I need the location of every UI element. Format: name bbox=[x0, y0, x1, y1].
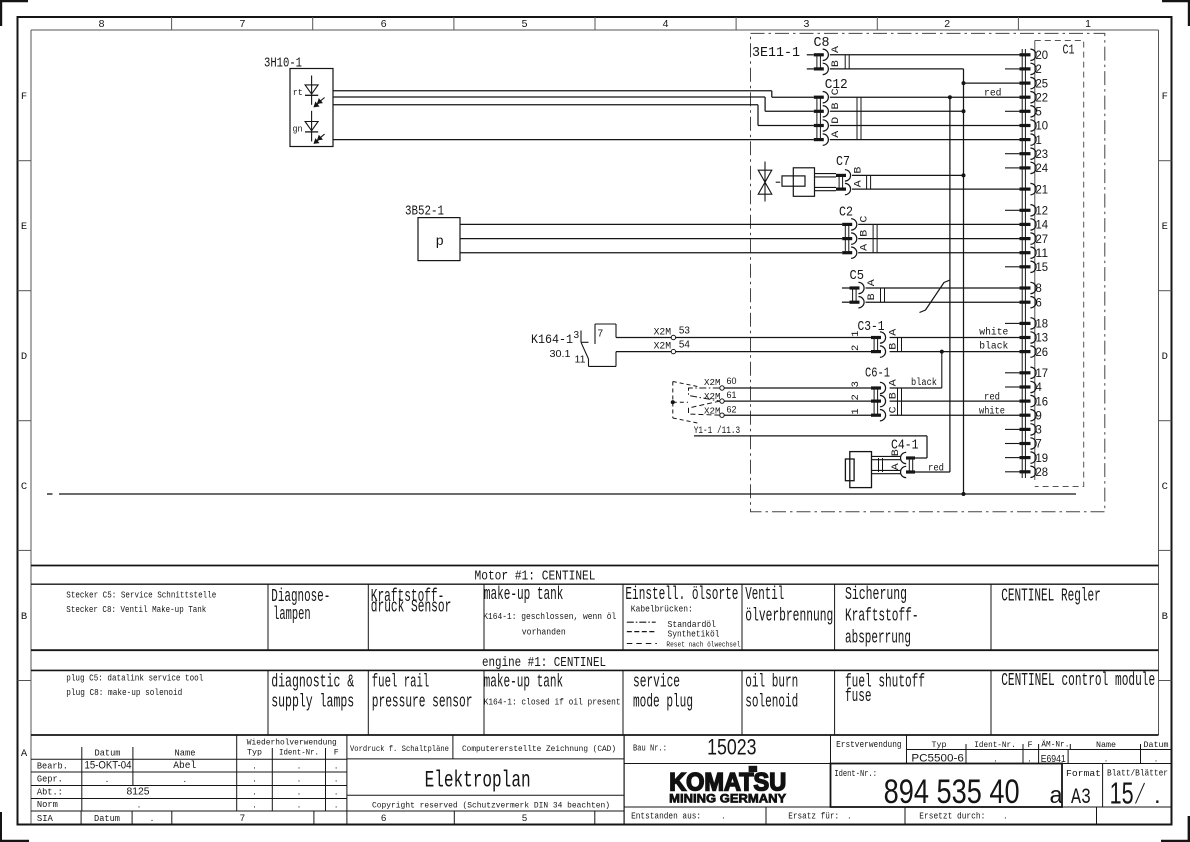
svg-text:Wiederholverwendung: Wiederholverwendung bbox=[247, 737, 337, 747]
svg-text:22: 22 bbox=[1036, 92, 1049, 104]
svg-text:8: 8 bbox=[99, 18, 105, 30]
svg-text:.: . bbox=[722, 810, 725, 821]
svg-text:diagnostic &: diagnostic & bbox=[271, 673, 354, 693]
svg-text:2: 2 bbox=[1036, 64, 1042, 76]
svg-text:black: black bbox=[979, 341, 1008, 353]
svg-text:Vordruck f. Schaltpläne: Vordruck f. Schaltpläne bbox=[350, 744, 449, 754]
svg-text:Elektroplan: Elektroplan bbox=[425, 768, 531, 794]
svg-text:C7: C7 bbox=[836, 155, 850, 170]
svg-text:8125: 8125 bbox=[127, 785, 150, 797]
svg-text:Ersetzt durch:: Ersetzt durch: bbox=[919, 810, 985, 821]
svg-text:.: . bbox=[253, 773, 256, 784]
svg-text:Bearb.: Bearb. bbox=[37, 761, 68, 772]
svg-text:A: A bbox=[888, 379, 899, 386]
svg-text:54: 54 bbox=[679, 340, 690, 351]
svg-text:Ventil: Ventil bbox=[745, 585, 784, 605]
svg-text:B: B bbox=[1162, 611, 1168, 623]
svg-text:7: 7 bbox=[240, 813, 245, 824]
svg-text:12: 12 bbox=[1036, 206, 1049, 218]
svg-text:F: F bbox=[1027, 740, 1032, 750]
svg-text:red: red bbox=[928, 462, 944, 474]
svg-text:plug C5: datalink service tool: plug C5: datalink service tool bbox=[66, 674, 203, 684]
svg-text:16: 16 bbox=[1036, 396, 1049, 408]
svg-text:X2M: X2M bbox=[654, 327, 672, 338]
svg-text:Reset nach ölwechsel: Reset nach ölwechsel bbox=[666, 641, 740, 649]
svg-text:B: B bbox=[21, 611, 27, 623]
svg-text:Diagnose-: Diagnose- bbox=[271, 587, 330, 607]
svg-text:make-up tank: make-up tank bbox=[484, 585, 564, 605]
svg-text:absperrung: absperrung bbox=[845, 629, 911, 649]
svg-text:Kabelbrücken:: Kabelbrücken: bbox=[631, 605, 693, 615]
svg-text:.: . bbox=[335, 773, 338, 784]
svg-text:10: 10 bbox=[1036, 121, 1049, 133]
svg-text:21: 21 bbox=[1036, 184, 1049, 196]
svg-text:60: 60 bbox=[727, 376, 737, 387]
svg-text:A: A bbox=[867, 279, 878, 286]
svg-text:white: white bbox=[979, 327, 1008, 339]
svg-text:4: 4 bbox=[663, 18, 669, 30]
svg-text:D: D bbox=[21, 351, 27, 363]
svg-text:7: 7 bbox=[239, 18, 245, 30]
svg-text:.: . bbox=[335, 800, 338, 811]
svg-text:13: 13 bbox=[1036, 333, 1049, 345]
svg-text:make-up tank: make-up tank bbox=[484, 673, 563, 693]
svg-text:Kraftstoff-: Kraftstoff- bbox=[845, 607, 919, 627]
svg-text:lampen: lampen bbox=[273, 605, 311, 625]
svg-text:3: 3 bbox=[850, 381, 862, 387]
svg-text:.: . bbox=[253, 800, 256, 811]
svg-text:A: A bbox=[860, 244, 871, 251]
svg-text:vorhanden: vorhanden bbox=[522, 628, 566, 638]
svg-text:A: A bbox=[831, 131, 842, 138]
svg-text:Einstell. ölsorte: Einstell. ölsorte bbox=[625, 585, 738, 605]
svg-text:Sicherung: Sicherung bbox=[845, 585, 907, 605]
svg-text:.: . bbox=[298, 786, 301, 797]
svg-text:rt: rt bbox=[293, 87, 303, 98]
svg-text:Datum: Datum bbox=[94, 813, 120, 824]
svg-text:30.1: 30.1 bbox=[550, 349, 571, 360]
svg-text:.: . bbox=[151, 813, 154, 824]
svg-text:A3: A3 bbox=[1071, 785, 1091, 810]
svg-text:Computererstellte Zeichnung (C: Computererstellte Zeichnung (CAD) bbox=[462, 744, 616, 754]
svg-text:Standardöl: Standardöl bbox=[668, 620, 717, 630]
svg-text:7: 7 bbox=[1036, 439, 1042, 451]
svg-text:23: 23 bbox=[1036, 149, 1049, 161]
svg-text:Datum: Datum bbox=[95, 749, 121, 759]
svg-text:X2M: X2M bbox=[704, 377, 721, 388]
svg-text:C8: C8 bbox=[814, 36, 830, 51]
svg-text:Name: Name bbox=[1096, 740, 1116, 750]
svg-text:C5: C5 bbox=[850, 269, 865, 284]
svg-text:Name: Name bbox=[175, 749, 196, 759]
svg-text:B: B bbox=[831, 103, 842, 110]
svg-text:SIA: SIA bbox=[37, 813, 53, 824]
svg-text:gn: gn bbox=[293, 124, 303, 135]
svg-text:engine #1: CENTINEL: engine #1: CENTINEL bbox=[482, 656, 606, 671]
svg-text:.: . bbox=[1105, 754, 1108, 765]
svg-text:Ident-Nr.: Ident-Nr. bbox=[279, 748, 319, 758]
svg-text:F: F bbox=[334, 749, 339, 758]
svg-text:15023: 15023 bbox=[707, 735, 756, 760]
svg-text:K164-1: closed if oil present: K164-1: closed if oil present bbox=[484, 698, 621, 708]
svg-text:ölverbrennung: ölverbrennung bbox=[745, 607, 833, 627]
svg-text:1: 1 bbox=[850, 408, 862, 414]
svg-text:5: 5 bbox=[522, 18, 528, 30]
svg-text:F: F bbox=[1162, 91, 1168, 103]
svg-text:.: . bbox=[335, 761, 338, 772]
svg-text:p: p bbox=[436, 234, 444, 250]
svg-text:Abel: Abel bbox=[173, 760, 196, 772]
svg-text:B: B bbox=[860, 230, 871, 237]
svg-text:Abt.:: Abt.: bbox=[37, 786, 63, 797]
svg-text:Datum: Datum bbox=[1144, 740, 1169, 750]
svg-text:red: red bbox=[984, 87, 1002, 99]
svg-text:white: white bbox=[979, 405, 1005, 417]
svg-text:.: . bbox=[183, 774, 186, 785]
svg-text:KOMATSU: KOMATSU bbox=[669, 768, 786, 796]
svg-text:B: B bbox=[853, 167, 864, 174]
svg-text:.: . bbox=[298, 761, 301, 772]
svg-text:E: E bbox=[21, 221, 27, 233]
svg-text:A: A bbox=[853, 180, 864, 187]
svg-text:pressure sensor: pressure sensor bbox=[372, 693, 473, 713]
svg-text:Motor #1: CENTINEL: Motor #1: CENTINEL bbox=[475, 570, 596, 585]
svg-text:black: black bbox=[911, 377, 937, 389]
svg-text:oil burn: oil burn bbox=[745, 673, 798, 693]
svg-text:2: 2 bbox=[850, 394, 862, 400]
svg-text:Copyright reserved (Schutzverm: Copyright reserved (Schutzvermerk DIN 34… bbox=[372, 801, 610, 811]
svg-text:3: 3 bbox=[1036, 425, 1042, 437]
svg-text:Stecker C5: Service Schnittste: Stecker C5: Service Schnittstelle bbox=[66, 590, 216, 600]
svg-text:Ersatz für:: Ersatz für: bbox=[788, 810, 839, 821]
svg-text:25: 25 bbox=[1036, 78, 1049, 90]
svg-text:Stecker C8: Ventil Make-up Tan: Stecker C8: Ventil Make-up Tank bbox=[66, 605, 206, 615]
svg-text:.: . bbox=[253, 761, 256, 772]
svg-text:C2: C2 bbox=[839, 206, 853, 221]
svg-text:8: 8 bbox=[1036, 283, 1042, 295]
svg-text:B: B bbox=[831, 60, 842, 67]
svg-text:15: 15 bbox=[1036, 262, 1049, 274]
svg-text:D: D bbox=[1162, 351, 1168, 363]
svg-text:A: A bbox=[891, 463, 902, 470]
svg-text:B: B bbox=[891, 449, 902, 456]
svg-text:6: 6 bbox=[381, 18, 387, 30]
svg-text:C6-1: C6-1 bbox=[865, 367, 890, 382]
svg-text:A: A bbox=[888, 329, 899, 336]
svg-text:X2M: X2M bbox=[654, 342, 672, 353]
svg-text:894 535 40: 894 535 40 bbox=[884, 773, 1020, 811]
svg-text:24: 24 bbox=[1036, 163, 1049, 175]
svg-text:.: . bbox=[253, 786, 256, 797]
svg-text:2: 2 bbox=[944, 18, 950, 30]
svg-text:K164-1: geschlossen, wenn öl: K164-1: geschlossen, wenn öl bbox=[483, 612, 616, 622]
svg-text:E: E bbox=[1162, 221, 1168, 233]
svg-text:supply lamps: supply lamps bbox=[271, 693, 354, 713]
svg-text:Norm: Norm bbox=[37, 799, 58, 810]
svg-text:17: 17 bbox=[1036, 368, 1049, 380]
svg-text:B: B bbox=[867, 293, 878, 300]
svg-text:.: . bbox=[848, 810, 851, 821]
svg-text:Typ: Typ bbox=[932, 740, 947, 750]
svg-text:5: 5 bbox=[522, 813, 527, 824]
svg-text:Ident-Nr.: Ident-Nr. bbox=[974, 740, 1016, 750]
svg-text:fuse: fuse bbox=[845, 687, 872, 707]
svg-text:F: F bbox=[21, 91, 27, 103]
svg-text:1: 1 bbox=[1036, 135, 1042, 147]
svg-text:.: . bbox=[335, 786, 338, 797]
svg-text:20: 20 bbox=[1036, 50, 1049, 62]
svg-text:53: 53 bbox=[679, 325, 690, 336]
svg-text:26: 26 bbox=[1036, 347, 1049, 359]
svg-text:14: 14 bbox=[1036, 220, 1049, 232]
svg-text:fuel rail: fuel rail bbox=[372, 673, 430, 693]
svg-text:3: 3 bbox=[803, 18, 809, 30]
svg-text:Erstverwendung: Erstverwendung bbox=[836, 740, 902, 750]
svg-text:C: C bbox=[1162, 481, 1168, 493]
svg-text:1: 1 bbox=[850, 331, 862, 337]
svg-text:C: C bbox=[860, 216, 871, 223]
svg-text:D: D bbox=[831, 117, 842, 124]
svg-text:.: . bbox=[106, 774, 109, 785]
svg-text:11: 11 bbox=[1036, 248, 1049, 260]
svg-text:.: . bbox=[1004, 810, 1007, 821]
svg-text:.: . bbox=[298, 773, 301, 784]
svg-text:.: . bbox=[138, 800, 141, 811]
svg-text:15: 15 bbox=[1110, 776, 1134, 811]
svg-text:solenoid: solenoid bbox=[745, 693, 798, 713]
svg-text:3H10-1: 3H10-1 bbox=[264, 57, 302, 72]
svg-text:Bau Nr.:: Bau Nr.: bbox=[633, 744, 667, 754]
svg-text:A: A bbox=[21, 748, 28, 760]
svg-text:61: 61 bbox=[727, 390, 737, 401]
svg-text:27: 27 bbox=[1036, 234, 1049, 246]
svg-text:6: 6 bbox=[381, 813, 386, 824]
svg-text:Ident-Nr.:: Ident-Nr.: bbox=[834, 769, 877, 779]
svg-text:3E11-1: 3E11-1 bbox=[752, 46, 800, 61]
svg-text:C1: C1 bbox=[1063, 44, 1075, 59]
svg-text:mode plug: mode plug bbox=[633, 693, 693, 713]
svg-text:4: 4 bbox=[1036, 382, 1043, 394]
svg-text:.: . bbox=[1154, 782, 1161, 809]
svg-text:15-OKT-04: 15-OKT-04 bbox=[85, 760, 132, 772]
svg-text:CENTINEL control module: CENTINEL control module bbox=[1001, 671, 1155, 691]
svg-text:Typ: Typ bbox=[247, 749, 262, 758]
svg-text:red: red bbox=[984, 391, 1000, 403]
svg-text:Synthetiköl: Synthetiköl bbox=[668, 629, 720, 639]
svg-text:druck Sensor: druck Sensor bbox=[371, 598, 452, 618]
svg-text:A: A bbox=[831, 46, 842, 53]
svg-text:5: 5 bbox=[1036, 107, 1042, 119]
svg-text:.: . bbox=[1155, 754, 1158, 765]
svg-text:18: 18 bbox=[1036, 319, 1049, 331]
svg-text:K164-1: K164-1 bbox=[531, 333, 573, 347]
svg-text:ÄM-Nr.: ÄM-Nr. bbox=[1041, 740, 1069, 750]
svg-text:Gepr.: Gepr. bbox=[37, 773, 63, 784]
svg-text:MINING GERMANY: MINING GERMANY bbox=[669, 793, 786, 805]
svg-text:62: 62 bbox=[727, 404, 737, 415]
svg-text:plug C8: make-up solenoid: plug C8: make-up solenoid bbox=[66, 688, 182, 698]
svg-text:6: 6 bbox=[1036, 297, 1042, 309]
svg-text:7: 7 bbox=[598, 329, 604, 340]
svg-text:28: 28 bbox=[1036, 467, 1049, 479]
svg-text:11: 11 bbox=[575, 355, 586, 366]
svg-text:9: 9 bbox=[1036, 410, 1042, 422]
svg-text:1: 1 bbox=[1085, 18, 1091, 30]
svg-text:C: C bbox=[21, 481, 27, 493]
svg-text:.: . bbox=[298, 800, 301, 811]
svg-text:Entstanden aus:: Entstanden aus: bbox=[631, 810, 701, 821]
svg-text:CENTINEL Regler: CENTINEL Regler bbox=[1001, 587, 1101, 607]
svg-text:2: 2 bbox=[850, 345, 862, 351]
svg-text:19: 19 bbox=[1036, 453, 1049, 465]
svg-text:service: service bbox=[633, 673, 680, 693]
svg-text:3: 3 bbox=[574, 330, 580, 341]
svg-text:C: C bbox=[831, 88, 842, 95]
svg-text:Format: Format bbox=[1066, 769, 1101, 779]
